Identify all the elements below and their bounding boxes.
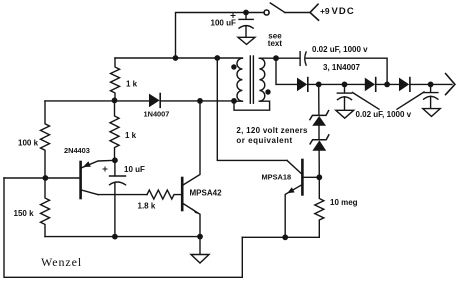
- wire base row: [4, 177, 80, 179]
- node divider junction: [43, 175, 49, 181]
- node multiplier junction: [384, 82, 390, 88]
- ground under C5: [423, 109, 440, 117]
- wire diode to transformer: [160, 100, 234, 102]
- svg-text:2N4403: 2N4403: [64, 146, 90, 155]
- ground under C4: [336, 110, 354, 118]
- bottom bracket: [234, 101, 270, 110]
- capacitor C2 10 uF: [103, 160, 126, 185]
- node MPSA42 emitter junction: [197, 234, 203, 240]
- wire +9 feed to Q3 collector: [217, 58, 287, 160]
- secondary top lead: [259, 57, 276, 59]
- phasing dot primary: [231, 64, 236, 69]
- svg-text:0.02 uF, 1000 v: 0.02 uF, 1000 v: [312, 45, 368, 54]
- capacitor C4 0.02 uF: [337, 84, 351, 109]
- node cap C5 junction: [428, 82, 434, 88]
- svg-text:3, 1N4007: 3, 1N4007: [323, 63, 360, 72]
- wire top rail: [115, 57, 242, 59]
- svg-text:MPSA18: MPSA18: [262, 172, 292, 181]
- leader line right: [397, 92, 424, 109]
- svg-text:100 k: 100 k: [18, 139, 39, 148]
- svg-text:VDC: VDC: [332, 6, 355, 17]
- diode D4 1N4007: [149, 94, 160, 108]
- resistor R3 100 k: [41, 101, 50, 178]
- svg-text:1 k: 1 k: [126, 80, 138, 89]
- label +9 VDC: [320, 6, 355, 17]
- wire node row y100: [45, 100, 149, 102]
- note label see text: [268, 31, 283, 48]
- node C2 bottom junction: [112, 234, 118, 240]
- phasing dot secondary: [265, 89, 270, 94]
- node collector junction: [197, 98, 203, 104]
- wire ground row: [45, 236, 200, 238]
- zener diode ZD1: [310, 84, 329, 125]
- node R1/R2/D junction: [112, 98, 118, 104]
- wire to ground: [199, 237, 201, 255]
- svg-text:MPSA42: MPSA42: [190, 188, 223, 197]
- wire rectifier row A: [308, 83, 365, 85]
- wire D2 to D3: [376, 83, 399, 85]
- wire emitter row: [242, 236, 319, 238]
- diode D1 1N4007: [297, 78, 308, 92]
- node zener-base junction: [316, 174, 322, 180]
- resistor R1 1 k (upper): [111, 58, 120, 100]
- svg-text:10 meg: 10 meg: [330, 198, 358, 207]
- node 100uF top junction: [243, 10, 249, 16]
- capacitor C1 100 uF: [231, 13, 253, 38]
- capacitor C3 0.02 uF series: [276, 52, 387, 85]
- svg-text:1 k: 1 k: [125, 131, 137, 140]
- svg-text:1N4007: 1N4007: [144, 110, 170, 119]
- ground under C1: [238, 37, 255, 44]
- svg-text:100 uF: 100 uF: [211, 19, 236, 28]
- primary winding: [237, 58, 242, 101]
- node transformer bottom junction: [231, 98, 237, 104]
- svg-text:10 uF: 10 uF: [124, 165, 145, 174]
- wire switch feed: [176, 13, 264, 59]
- svg-text:2, 120 volt zeners: 2, 120 volt zeners: [236, 126, 308, 135]
- resistor R6 10 meg: [315, 177, 324, 237]
- diode D3 1N4007: [399, 78, 410, 92]
- node cap C4 junction: [342, 82, 348, 88]
- leader line left: [353, 93, 380, 110]
- node rail-switch junction: [173, 55, 179, 61]
- transistor Q1 2N4403: [81, 160, 115, 198]
- output arrow: [446, 74, 455, 95]
- transistor Q2 MPSA42: [182, 101, 200, 237]
- resistor R4 150 k: [41, 178, 50, 237]
- wire feedback loop: [4, 178, 242, 277]
- wire collector row: [98, 194, 147, 196]
- svg-text:or equivalent: or equivalent: [236, 136, 292, 145]
- diode D2 1N4007: [365, 78, 376, 92]
- capacitor C5 0.02 uF: [423, 84, 438, 108]
- transformer T1: [231, 56, 276, 110]
- wire output: [410, 83, 452, 85]
- switch S1: [264, 3, 318, 20]
- svg-text:0.02 uF, 1000 v: 0.02 uF, 1000 v: [356, 110, 412, 119]
- wire C2 bottom: [114, 183, 116, 237]
- svg-text:150 k: 150 k: [14, 209, 35, 218]
- svg-text:+9: +9: [320, 6, 330, 16]
- secondary winding: [259, 58, 264, 101]
- transistor Q3 MPSA18: [285, 160, 319, 237]
- resistor R2 1 k (lower): [110, 100, 119, 160]
- resistor R5 1.8 k: [147, 190, 182, 199]
- ground main: [191, 255, 209, 264]
- core: [249, 56, 251, 103]
- svg-text:1.8 k: 1.8 k: [138, 202, 156, 211]
- node rail feed junction: [214, 55, 220, 61]
- svg-text:text: text: [268, 39, 283, 48]
- svg-text:Wenzel: Wenzel: [41, 255, 82, 269]
- wire secondary to rectifier: [276, 58, 297, 84]
- zener diode ZD2: [310, 126, 329, 178]
- node secondary output junction: [273, 55, 279, 61]
- node Q3 emitter junction: [282, 234, 288, 240]
- node zener junction: [316, 82, 322, 88]
- node emitter junction: [112, 157, 118, 163]
